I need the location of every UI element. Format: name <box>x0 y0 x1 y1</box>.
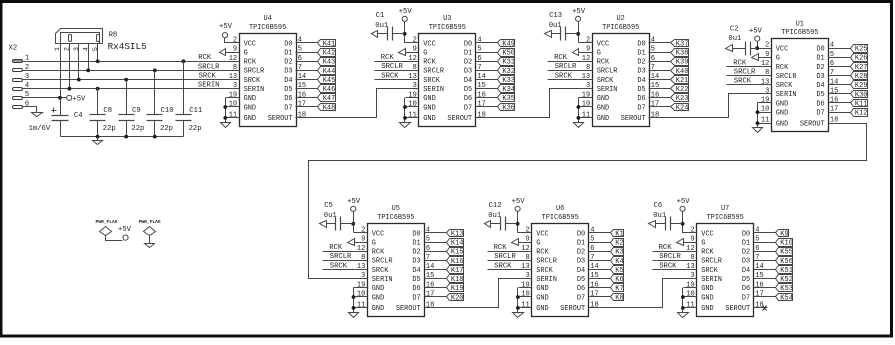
IC U6 left pin 9 G <box>519 236 541 248</box>
wire +5V to U5 VCC <box>353 212 355 233</box>
svg-text:8: 8 <box>413 64 417 72</box>
svg-text:D1: D1 <box>284 49 292 57</box>
junction R8 pin 3 <box>77 78 81 82</box>
power +5V at U1 VCC <box>749 28 763 42</box>
IC U2 left pin 19 GND <box>579 91 610 103</box>
capacitor C12 0u1 <box>485 202 518 230</box>
power +5V at U5 VCC <box>347 198 361 212</box>
svg-text:12: 12 <box>686 245 694 253</box>
svg-text:5: 5 <box>298 46 302 54</box>
wire net RCK <box>22 61 226 63</box>
svg-text:G: G <box>536 239 540 247</box>
svg-text:13: 13 <box>761 78 769 86</box>
svg-text:0u1: 0u1 <box>375 22 388 30</box>
global label K4 <box>603 257 624 266</box>
svg-text:SRCLR: SRCLR <box>776 73 797 81</box>
global label K7 <box>603 284 624 294</box>
global label K21 <box>663 76 689 86</box>
svg-text:5: 5 <box>590 236 594 244</box>
global label K51 <box>768 266 793 276</box>
IC U3 right pin 5 D1 <box>464 46 490 58</box>
IC U5 right pin 6 D2 <box>412 245 437 257</box>
connector X2 pad pin 5 <box>13 91 30 99</box>
svg-text:U1: U1 <box>796 20 804 28</box>
junction at C5/+5V <box>351 222 355 226</box>
svg-text:0u1: 0u1 <box>653 212 666 220</box>
svg-text:K29: K29 <box>855 82 868 90</box>
IC U2 left pin 8 SRCLR <box>579 64 618 76</box>
no-connect x at U7 SEROUT <box>763 306 767 311</box>
global label K55 <box>768 248 793 257</box>
global label K17 <box>438 266 464 276</box>
svg-text:K26: K26 <box>855 55 868 63</box>
svg-text:SERIN: SERIN <box>244 86 265 94</box>
IC U6 right pin 18 SEROUT <box>560 301 602 313</box>
wire GND pins tie at U1 <box>757 103 759 128</box>
svg-text:C9: C9 <box>132 107 141 115</box>
IC U6 right pin 7 D3 <box>577 254 603 266</box>
global label K48 <box>310 104 336 113</box>
svg-text:19: 19 <box>357 281 365 289</box>
svg-text:3: 3 <box>413 82 417 90</box>
svg-text:6: 6 <box>426 245 430 253</box>
svg-text:D3: D3 <box>577 258 585 266</box>
svg-text:SRCK: SRCK <box>330 262 348 270</box>
IC U6 left pin 2 VCC <box>519 227 549 239</box>
IC U4 left pin 13 SRCK <box>226 73 262 85</box>
net label stub SRCK at U1 <box>727 78 758 86</box>
svg-text:12: 12 <box>357 245 365 253</box>
svg-text:8: 8 <box>361 254 365 262</box>
net label stub RCK at U7 <box>653 244 684 252</box>
svg-text:GND: GND <box>244 95 256 103</box>
svg-text:C11: C11 <box>189 107 202 115</box>
svg-text:2: 2 <box>413 37 417 45</box>
capacitor C11 22p <box>176 62 203 137</box>
global label K26 <box>842 54 868 63</box>
IC U6 left pin 10 GND <box>519 291 549 303</box>
svg-text:Rx4SIL5: Rx4SIL5 <box>108 41 147 52</box>
IC U5 left pin 11 GND <box>354 301 385 313</box>
svg-text:D6: D6 <box>742 285 750 293</box>
IC U4 body <box>240 34 297 127</box>
svg-text:14: 14 <box>477 73 485 81</box>
svg-text:PWR_FLAG: PWR_FLAG <box>95 219 117 225</box>
svg-text:SRCK: SRCK <box>244 77 261 85</box>
capacitor C9 22p <box>119 80 145 137</box>
svg-text:2: 2 <box>64 47 72 51</box>
svg-text:GND: GND <box>701 294 713 302</box>
IC U7 body <box>697 224 754 317</box>
svg-text:2: 2 <box>586 37 590 45</box>
junction at C12/+5V <box>516 222 520 226</box>
svg-text:D1: D1 <box>464 49 472 57</box>
svg-text:11: 11 <box>521 301 529 309</box>
svg-text:3: 3 <box>361 272 365 280</box>
connector X2 pad pin 4 <box>13 82 30 90</box>
junction at C13/+5V <box>576 32 580 36</box>
IC U7 left pin 12 RCK <box>684 245 715 257</box>
global label K8 <box>603 294 624 303</box>
svg-text:GND: GND <box>701 305 713 313</box>
global label K6 <box>603 275 624 285</box>
svg-text:GND: GND <box>423 104 435 112</box>
IC U4 G pin input arrow <box>220 49 226 56</box>
junction R8 pin 2 <box>68 87 72 91</box>
global label K15 <box>438 248 464 257</box>
IC U2 right pin 7 D3 <box>637 64 662 76</box>
svg-text:VCC: VCC <box>597 40 609 48</box>
net label stub SRCLR at U3 <box>375 63 406 71</box>
IC U3 right pin 4 D0 <box>464 37 490 49</box>
svg-text:C8: C8 <box>103 107 112 115</box>
IC U1 left pin 19 GND <box>758 97 789 109</box>
svg-text:GND: GND <box>244 104 256 112</box>
global label K50 <box>490 49 516 58</box>
svg-text:SRCLR: SRCLR <box>372 258 393 266</box>
svg-text:GND: GND <box>776 120 788 128</box>
IC U5 right pin 4 D0 <box>412 227 437 239</box>
power +5V at X2 pin 5 <box>67 95 86 103</box>
svg-text:22p: 22p <box>160 125 173 133</box>
svg-text:SRCK: SRCK <box>372 267 389 275</box>
junction C8 to signal row <box>96 87 100 91</box>
IC U1 left pin 2 VCC <box>758 42 789 54</box>
global label K29 <box>842 81 868 91</box>
junction GND pin 10 U3 <box>403 105 407 109</box>
R8 pin 4 wire <box>82 44 90 71</box>
IC U2 right pin 5 D1 <box>637 46 662 58</box>
global label K3 <box>603 248 624 257</box>
svg-text:SRCK: SRCK <box>659 262 677 270</box>
junction R8 pin 5 <box>96 59 100 63</box>
net label stub RCK at U3 <box>375 54 406 62</box>
svg-text:VCC: VCC <box>244 40 256 48</box>
IC U5 body <box>368 224 425 317</box>
svg-text:GND: GND <box>423 95 435 103</box>
global label K34 <box>490 85 516 95</box>
svg-text:K47: K47 <box>323 95 336 103</box>
svg-text:14: 14 <box>426 263 434 271</box>
svg-text:K20: K20 <box>451 294 464 302</box>
IC U1 left pin 11 GND <box>758 117 789 129</box>
svg-text:SRCLR: SRCLR <box>330 253 352 261</box>
svg-text:GND: GND <box>372 305 384 313</box>
IC U2 right pin 16 D6 <box>637 91 662 103</box>
net label stub SRCK at U5 <box>323 262 354 270</box>
svg-text:RCK: RCK <box>554 54 568 62</box>
IC U3 right pin 15 D5 <box>464 82 490 94</box>
junction at C1/+5V <box>403 32 407 36</box>
svg-text:D1: D1 <box>577 239 585 247</box>
net label stub SRCLR at U5 <box>323 253 354 261</box>
svg-text:GND: GND <box>776 100 788 108</box>
svg-text:RCK: RCK <box>198 54 212 62</box>
IC U3 left pin 10 GND <box>406 101 436 113</box>
wire U3 SEROUT to U2 SERIN <box>490 89 579 118</box>
svg-text:6: 6 <box>25 100 29 108</box>
svg-text:3: 3 <box>233 82 237 90</box>
svg-text:14: 14 <box>298 73 306 81</box>
IC U3 left pin 8 SRCLR <box>406 64 444 76</box>
net label stub SRCLR at U6 <box>488 253 519 261</box>
svg-text:12: 12 <box>761 60 769 68</box>
svg-text:8: 8 <box>233 64 237 72</box>
svg-text:SRCK: SRCK <box>199 73 217 81</box>
svg-text:K49: K49 <box>502 40 515 48</box>
IC U7 right pin 6 D2 <box>742 245 768 257</box>
IC U5 TPIC6B595 shift register <box>320 198 464 318</box>
IC U6 left pin 13 SRCK <box>519 263 554 275</box>
IC U7 right pin 4 D0 <box>742 227 768 239</box>
IC U4 left pin 19 GND <box>226 91 257 103</box>
svg-text:+5V: +5V <box>749 28 763 36</box>
svg-text:K15: K15 <box>451 249 464 257</box>
svg-text:D5: D5 <box>464 86 472 94</box>
IC U6 right pin 5 D1 <box>577 236 603 248</box>
global label K40 <box>663 67 689 76</box>
svg-text:18: 18 <box>830 117 838 125</box>
global label K13 <box>438 230 464 239</box>
svg-text:SEROUT: SEROUT <box>560 305 585 313</box>
IC U7 left pin 3 SERIN <box>684 272 722 284</box>
IC U4 left pin 9 G <box>226 46 248 58</box>
svg-text:C2: C2 <box>730 25 739 33</box>
IC U5 right pin 17 D7 <box>412 291 437 303</box>
capacitor C13 0u1 <box>545 12 579 40</box>
svg-text:10: 10 <box>408 101 416 109</box>
svg-text:K11: K11 <box>855 100 868 108</box>
svg-text:K41: K41 <box>323 40 336 48</box>
svg-text:13: 13 <box>686 263 694 271</box>
IC U2 right pin 17 D7 <box>637 101 662 113</box>
svg-text:SRCLR: SRCLR <box>423 68 444 76</box>
svg-text:D1: D1 <box>816 55 824 63</box>
IC U7 right pin 14 D4 <box>742 263 768 275</box>
IC U2 right pin 14 D4 <box>637 73 662 85</box>
IC U7 TPIC6B595 shift register <box>649 198 793 318</box>
svg-text:11: 11 <box>761 117 769 125</box>
svg-text:D0: D0 <box>742 230 750 238</box>
junction GND pin 11 U4 <box>223 116 227 120</box>
IC U4 right pin 14 D4 <box>284 73 309 85</box>
global label K36 <box>490 104 516 113</box>
svg-text:RCK: RCK <box>536 249 549 257</box>
capacitor C1 0u1 <box>372 12 405 40</box>
svg-text:K24: K24 <box>676 104 689 112</box>
global label K43 <box>310 58 336 67</box>
svg-text:K19: K19 <box>451 285 464 293</box>
svg-text:D3: D3 <box>412 258 420 266</box>
svg-text:C13: C13 <box>549 12 562 20</box>
svg-text:D6: D6 <box>464 95 472 103</box>
junction GND pin 11 U2 <box>577 116 581 120</box>
IC U3 right pin 17 D7 <box>464 101 490 113</box>
svg-text:7: 7 <box>755 254 759 262</box>
IC U4 left pin 11 GND <box>226 111 257 123</box>
global label K38 <box>663 49 689 58</box>
svg-text:GND: GND <box>372 294 384 302</box>
net label stub RCK at U5 <box>323 244 354 252</box>
IC U7 left pin 19 GND <box>684 281 714 293</box>
wire net SRCK <box>22 79 226 81</box>
IC U5 left pin 8 SRCLR <box>354 254 393 266</box>
svg-text:SERIN: SERIN <box>423 86 444 94</box>
svg-text:GND: GND <box>776 110 788 118</box>
IC U6 right pin 14 D4 <box>577 263 603 275</box>
svg-text:6: 6 <box>590 245 594 253</box>
svg-text:K36: K36 <box>502 104 515 112</box>
svg-text:9: 9 <box>525 236 529 244</box>
global label K1 <box>603 230 624 239</box>
svg-text:K4: K4 <box>615 258 623 266</box>
net label stub SRCK at U2 <box>548 72 579 80</box>
IC U1 body <box>772 39 829 132</box>
svg-text:0u1: 0u1 <box>549 22 562 30</box>
junction GND pin 11 U7 <box>681 306 685 310</box>
junction ground rail <box>96 135 100 139</box>
svg-text:C1: C1 <box>376 12 385 20</box>
svg-text:SEROUT: SEROUT <box>800 120 825 128</box>
svg-text:K34: K34 <box>502 86 515 94</box>
svg-text:3: 3 <box>525 272 529 280</box>
global label K35 <box>490 94 516 104</box>
svg-text:6: 6 <box>755 245 759 253</box>
svg-text:16: 16 <box>298 91 306 99</box>
svg-text:0u1: 0u1 <box>324 212 337 220</box>
IC U6 TPIC6B595 shift register <box>485 198 624 318</box>
svg-text:15: 15 <box>830 87 838 95</box>
svg-text:RCK: RCK <box>494 244 508 252</box>
svg-text:0u1: 0u1 <box>728 35 741 43</box>
svg-text:D2: D2 <box>284 59 292 67</box>
global label K30 <box>842 91 868 100</box>
svg-text:4: 4 <box>82 47 90 51</box>
global label K44 <box>310 67 336 76</box>
svg-text:GND: GND <box>244 115 256 123</box>
ground at U4 <box>221 123 231 128</box>
svg-text:17: 17 <box>298 101 306 109</box>
svg-text:12: 12 <box>408 55 416 63</box>
svg-text:D7: D7 <box>742 294 750 302</box>
resistor network R8 Rx4SIL5 <box>56 29 103 44</box>
svg-text:K27: K27 <box>855 64 868 72</box>
svg-text:SRCK: SRCK <box>776 82 793 90</box>
svg-text:+5V: +5V <box>512 198 526 206</box>
global label K56 <box>768 257 793 266</box>
svg-text:D2: D2 <box>464 59 472 67</box>
global label K45 <box>310 76 336 86</box>
global label K22 <box>663 85 689 95</box>
svg-text:G: G <box>372 239 376 247</box>
power flag PWR_FLAG #1 <box>95 219 122 241</box>
svg-text:15: 15 <box>298 82 306 90</box>
IC U5 left pin 3 SERIN <box>354 272 393 284</box>
svg-text:15: 15 <box>426 272 434 280</box>
svg-text:3: 3 <box>73 47 81 51</box>
IC U5 right pin 15 D5 <box>412 272 437 284</box>
svg-text:7: 7 <box>651 64 655 72</box>
ground at U1 <box>753 128 763 133</box>
svg-text:SRCK: SRCK <box>734 78 752 86</box>
svg-text:17: 17 <box>426 291 434 299</box>
capacitor C8 22p <box>90 89 116 137</box>
svg-text:K56: K56 <box>780 258 793 266</box>
wire U6 SEROUT to U7 SERIN <box>603 279 684 308</box>
IC U3 left pin 2 VCC <box>406 37 436 49</box>
svg-text:+5V: +5V <box>572 8 586 16</box>
net label stub RCK at U1 <box>727 59 758 67</box>
IC U2 left pin 13 SRCK <box>579 73 615 85</box>
svg-text:K32: K32 <box>502 68 515 76</box>
svg-text:SEROUT: SEROUT <box>396 305 421 313</box>
global label K12 <box>842 109 868 118</box>
junction at C6/+5V <box>681 222 685 226</box>
svg-text:VCC: VCC <box>372 230 384 238</box>
svg-text:K42: K42 <box>323 50 336 58</box>
svg-text:X2: X2 <box>9 45 18 53</box>
global label K42 <box>310 49 336 58</box>
svg-text:RCK: RCK <box>372 249 385 257</box>
svg-text:R8: R8 <box>109 32 118 40</box>
svg-text:RCK: RCK <box>329 244 343 252</box>
IC U6 right pin 15 D5 <box>577 272 603 284</box>
svg-text:GND: GND <box>423 115 435 123</box>
global label K32 <box>490 67 516 76</box>
svg-text:9: 9 <box>765 51 769 59</box>
IC U3 left pin 3 SERIN <box>406 82 444 94</box>
IC U3 left pin 19 GND <box>406 91 436 103</box>
svg-text:SEROUT: SEROUT <box>268 115 293 123</box>
global label K18 <box>438 275 464 285</box>
capacitor C10 22p <box>147 71 174 137</box>
IC U1 right pin 6 D2 <box>816 60 841 72</box>
svg-text:K14: K14 <box>451 240 464 248</box>
IC U1 left pin 8 SRCLR <box>758 69 797 81</box>
svg-text:K38: K38 <box>676 50 689 58</box>
svg-text:K28: K28 <box>855 73 868 81</box>
svg-text:D5: D5 <box>816 91 824 99</box>
svg-text:GND: GND <box>536 294 548 302</box>
svg-text:RCK: RCK <box>701 249 714 257</box>
IC U6 body <box>532 224 589 317</box>
wire net SERIN <box>22 88 226 90</box>
IC U4 TPIC6B595 shift register <box>219 15 335 127</box>
IC U3 left pin 11 GND <box>406 111 436 123</box>
svg-text:4: 4 <box>426 227 430 235</box>
svg-text:16: 16 <box>477 91 485 99</box>
svg-text:K9: K9 <box>780 230 788 238</box>
svg-text:C4: C4 <box>74 112 83 120</box>
svg-text:GND: GND <box>536 285 548 293</box>
net label stub SRCK at U6 <box>488 262 519 270</box>
connector X2 pad pin 2 <box>13 64 30 72</box>
svg-text:16: 16 <box>651 91 659 99</box>
svg-text:C12: C12 <box>489 202 502 210</box>
global label K11 <box>842 100 868 109</box>
IC U4 left pin 2 VCC <box>226 37 257 49</box>
svg-text:9: 9 <box>413 46 417 54</box>
IC U3 right pin 14 D4 <box>464 73 490 85</box>
IC U6 right pin 17 D7 <box>577 291 603 303</box>
wire +5V to U6 VCC <box>518 212 519 233</box>
svg-text:TPIC6B595: TPIC6B595 <box>249 24 286 32</box>
wire GND pins tie at U7 <box>682 288 684 313</box>
IC U3 right pin 7 D3 <box>464 64 490 76</box>
svg-text:SERIN: SERIN <box>701 276 722 284</box>
svg-text:K10: K10 <box>780 240 793 248</box>
svg-text:17: 17 <box>477 101 485 109</box>
